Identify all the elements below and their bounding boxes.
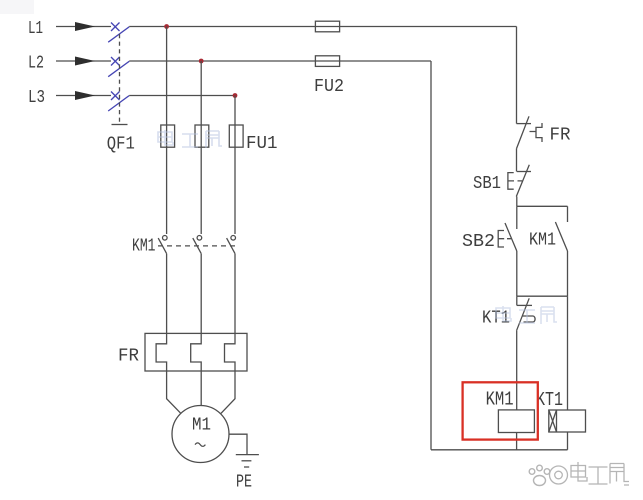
watermark @电工鼠 bottom (550, 462, 630, 485)
wire L3 lead (56, 95, 111, 97)
svg-text:SB1: SB1 (473, 174, 501, 194)
wire (516, 149, 518, 172)
button SB1 stop (508, 165, 531, 197)
wire PE tap (229, 434, 247, 454)
arrow L1 (75, 22, 95, 31)
watermark paw icon (529, 465, 550, 485)
coil KT1 (549, 410, 586, 432)
svg-text:KT1: KT1 (536, 389, 563, 411)
wire KT branch drop (567, 296, 569, 410)
breaker QF1 pole 3 (108, 92, 129, 112)
thermal relay FR box (145, 333, 247, 371)
watermark 电工鼠 left (158, 130, 222, 148)
svg-text:FU1: FU1 (246, 134, 278, 154)
svg-text:PE: PE (236, 472, 252, 492)
arrow L3 (75, 91, 95, 100)
timer KT1 NC delayed contact (517, 298, 536, 330)
wire (516, 197, 518, 207)
arrow L2 (75, 57, 95, 66)
wire phase B to motor (191, 254, 202, 406)
contactor KM1 main contact 3 (227, 236, 236, 254)
wire (567, 251, 569, 296)
contactor KM1 main contact 2 (193, 236, 202, 254)
contactor KM1 linkage (158, 245, 236, 247)
fuse FU2b (315, 56, 339, 67)
wire control left drop (430, 61, 432, 450)
junction dot L1 (164, 24, 169, 29)
wire phase B drop (200, 61, 202, 234)
wire (516, 433, 518, 450)
wire phase A to motor (156, 254, 181, 414)
wire branch bottom (517, 295, 568, 297)
svg-text:KM1: KM1 (132, 236, 156, 256)
wire L3 bus (129, 95, 235, 97)
coil KM1 (498, 410, 534, 433)
breaker QF1 pole 1 (108, 23, 129, 43)
contactor KM1 main contact 1 (158, 236, 167, 254)
wire phase C to motor (221, 254, 235, 414)
wire control right drop (516, 27, 518, 124)
wire L2 lead (56, 60, 111, 62)
svg-text:QF1: QF1 (107, 134, 135, 154)
FR aux NC contact (517, 116, 543, 148)
wire branch top (517, 205, 568, 207)
fuse FU2a (315, 21, 339, 32)
svg-text:FR: FR (550, 125, 571, 145)
wire L2 bus (129, 60, 431, 62)
svg-text:M1: M1 (192, 415, 211, 435)
watermark 电工鼠 middle (496, 306, 557, 324)
svg-text:L3: L3 (28, 88, 45, 108)
fuse FU1a (161, 125, 175, 147)
svg-text:L2: L2 (28, 54, 44, 74)
contactor KM1 aux contact (555, 206, 567, 251)
wire (567, 432, 569, 450)
svg-text:FR: FR (118, 346, 139, 366)
wire phase A drop (166, 27, 168, 235)
motor M1 (172, 406, 229, 463)
junction dot L3 (233, 93, 238, 98)
wire bottom bus (431, 449, 568, 451)
wire (516, 251, 518, 296)
svg-text:SB2: SB2 (462, 232, 495, 252)
junction dot L2 (199, 59, 204, 64)
wire (516, 296, 518, 305)
wire L1 lead (56, 26, 111, 28)
breaker QF1 pole 2 (108, 57, 129, 77)
button SB2 start (498, 206, 517, 251)
wire L1 bus (129, 26, 516, 28)
wire phase C drop (234, 96, 236, 235)
ground PE (236, 455, 259, 467)
highlight box KM1 coil (463, 382, 538, 439)
fuse FU1b (195, 125, 209, 147)
svg-text:FU2: FU2 (314, 77, 344, 97)
svg-text:KM1: KM1 (529, 230, 556, 250)
svg-text:L1: L1 (28, 19, 43, 39)
wire (516, 331, 518, 410)
breaker QF1 linkage (119, 34, 121, 125)
fuse FU1c (229, 125, 243, 147)
svg-text:KM1: KM1 (486, 388, 514, 410)
